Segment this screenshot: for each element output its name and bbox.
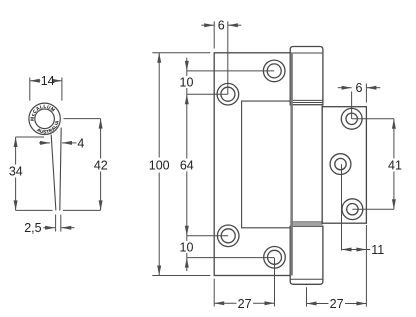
- svg-text:100: 100: [149, 158, 170, 172]
- svg-text:41: 41: [388, 159, 402, 173]
- svg-text:34: 34: [9, 164, 23, 178]
- svg-text:42: 42: [94, 158, 108, 172]
- svg-text:10: 10: [180, 75, 194, 89]
- svg-text:4: 4: [77, 137, 84, 151]
- svg-text:64: 64: [180, 158, 194, 172]
- svg-text:11: 11: [371, 243, 384, 257]
- svg-text:27: 27: [238, 297, 252, 311]
- svg-text:27: 27: [330, 297, 344, 311]
- svg-text:10: 10: [180, 240, 194, 254]
- svg-text:6: 6: [218, 19, 225, 33]
- svg-text:14: 14: [41, 74, 55, 88]
- svg-text:6: 6: [356, 81, 363, 95]
- svg-text:2,5: 2,5: [24, 221, 41, 235]
